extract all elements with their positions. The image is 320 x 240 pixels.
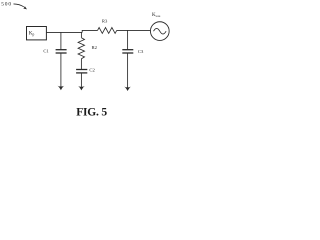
svg-text:R2: R2 xyxy=(92,45,98,50)
AC source Ksou xyxy=(150,13,169,41)
block Kp xyxy=(27,27,47,40)
wire: node B jog up to upper rail xyxy=(82,30,97,32)
svg-text:Kp: Kp xyxy=(29,30,35,36)
wire: R2 to C2 xyxy=(80,59,82,70)
wire: C3 to ground xyxy=(127,53,129,88)
wire: C1 to ground xyxy=(60,53,62,87)
wire: block output to node B xyxy=(46,31,82,33)
wire: C2 to ground xyxy=(80,73,82,87)
wire: node C down to C3 xyxy=(127,30,129,49)
leader arrow from 500 xyxy=(14,4,28,9)
resistor R2 xyxy=(78,38,98,59)
svg-text:Ksou: Ksou xyxy=(152,13,161,18)
svg-text:C2: C2 xyxy=(89,68,95,73)
capacitor C2 xyxy=(76,68,95,73)
ground (arrow) under C1 xyxy=(58,86,65,90)
wire: node B down to R2 xyxy=(80,32,82,37)
svg-text:R3: R3 xyxy=(102,19,108,24)
reference numeral 500 xyxy=(1,2,11,8)
capacitor C3 xyxy=(122,49,144,54)
svg-text:500: 500 xyxy=(1,2,11,8)
svg-text:C1: C1 xyxy=(43,48,49,53)
ground (arrow) under C3 xyxy=(124,87,131,91)
svg-text:C3: C3 xyxy=(138,49,144,54)
wire: R3 to source xyxy=(117,29,151,31)
resistor R3 xyxy=(98,19,117,34)
svg-text:FIG. 5: FIG. 5 xyxy=(76,107,107,119)
capacitor C1 xyxy=(43,48,66,53)
ground (arrow) under C2 xyxy=(78,86,85,90)
wire: node A down to C1 xyxy=(60,32,62,49)
